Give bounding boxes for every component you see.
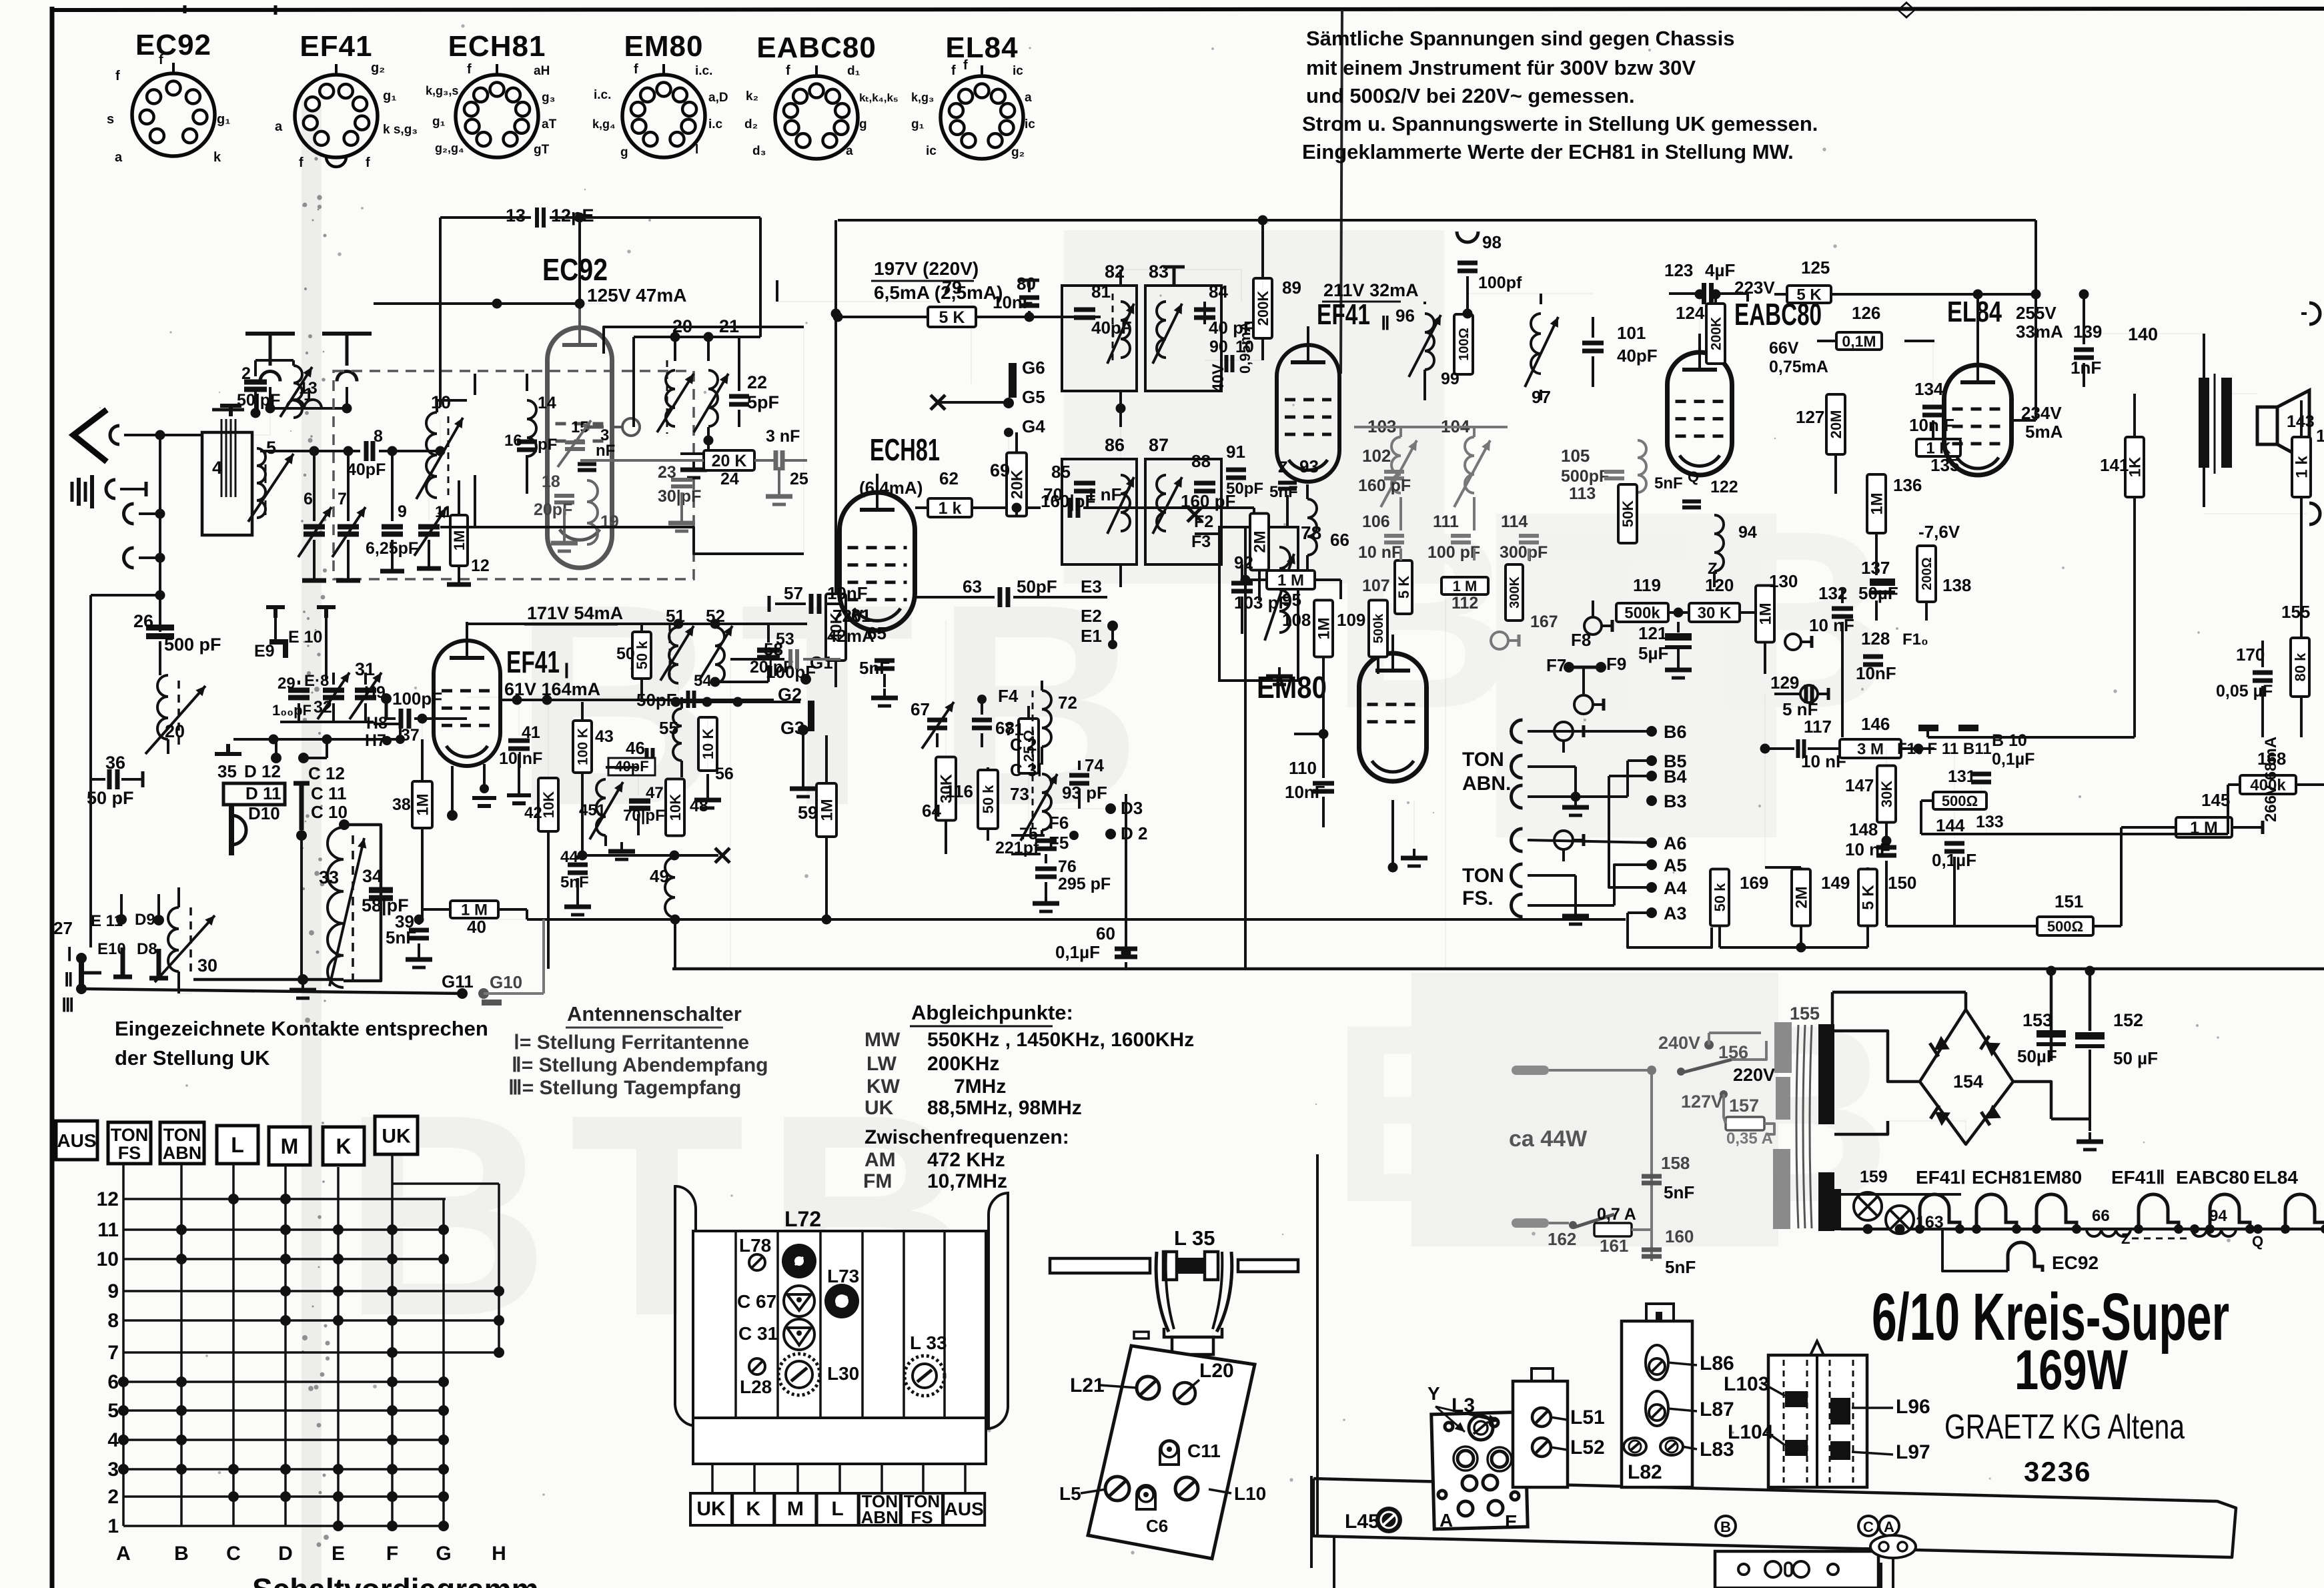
junction: [1677, 1068, 1685, 1076]
wire: [1322, 734, 1325, 778]
wire: [1831, 992, 1834, 1024]
resistor 12 (1M): [450, 515, 468, 566]
svg-text:10,7MHz: 10,7MHz: [927, 1170, 1007, 1192]
svg-text:148: 148: [1849, 819, 1878, 839]
svg-text:L10: L10: [1234, 1483, 1266, 1504]
wire: [332, 673, 335, 685]
tuner yoke right leg2: [1213, 1252, 1222, 1329]
svg-text:G11: G11: [442, 971, 474, 991]
wire mains 1: [1549, 1069, 1652, 1072]
wire: [89, 779, 92, 947]
svg-text:10: 10: [431, 392, 451, 412]
svg-text:Q: Q: [2252, 1233, 2263, 1250]
capacitor 60 (0,1µF): [1115, 949, 1137, 957]
svg-text:a: a: [1025, 91, 1032, 105]
wire: [1892, 1558, 1894, 1588]
capacitor 110 (10nF): [1313, 783, 1334, 791]
leader L104: [1766, 1432, 1785, 1445]
wire: [385, 699, 388, 719]
border frame top: [52, 9, 2324, 10]
IF transformer can 83: [1145, 286, 1221, 391]
wire: [300, 835, 303, 978]
capacitor 44 (5nF): [568, 865, 588, 873]
wire: [637, 814, 640, 835]
wire: [466, 622, 468, 624]
svg-text:78: 78: [1301, 522, 1321, 543]
tuner flange right: [1205, 1252, 1218, 1280]
trimmer C31: [784, 1319, 814, 1350]
wire: [706, 774, 709, 791]
svg-text:AM: AM: [864, 1149, 896, 1171]
matrix contact A3: [118, 1464, 129, 1475]
wire EM80 feed vertical: [1244, 527, 1247, 969]
svg-text:10K: 10K: [667, 794, 684, 821]
wire: [1119, 391, 1122, 427]
coil 30b: [168, 907, 179, 971]
wire: [2232, 826, 2263, 829]
svg-text:E: E: [1505, 1511, 1518, 1532]
wire: [680, 697, 683, 709]
dashed line 20: [666, 360, 668, 434]
wire: [680, 761, 683, 777]
junction: [298, 974, 308, 985]
resistor 146 (3M): [1840, 739, 1901, 759]
wire: [1861, 1193, 1961, 1196]
resistor 147 (30K): [1877, 766, 1896, 823]
svg-text:99: 99: [1441, 370, 1460, 388]
wire: [1015, 432, 1018, 454]
wire: [1976, 294, 1979, 346]
svg-text:B: B: [174, 1543, 189, 1565]
matrix contact B10: [176, 1254, 187, 1264]
wire: [1258, 571, 1261, 601]
wire: [674, 337, 676, 361]
dashed 30: [189, 907, 192, 974]
screw L21: [1137, 1376, 1159, 1399]
svg-text:FS.: FS.: [1462, 887, 1494, 909]
connector hole: [1738, 1564, 1749, 1575]
svg-text:0,7 A: 0,7 A: [1597, 1205, 1636, 1224]
arrow 67: [922, 702, 954, 749]
wire: [1473, 548, 1476, 560]
wire: [260, 450, 360, 452]
core lamination: [230, 419, 232, 497]
wire: [1027, 706, 1030, 719]
capacitor 63 (50pF): [1000, 587, 1008, 607]
heater of EF41 II: [2139, 1194, 2179, 1229]
capacitor 106 (10nF): [1384, 536, 1404, 542]
wire: [1528, 765, 1576, 768]
wire: [177, 971, 180, 994]
value 40pF box: [608, 758, 655, 775]
terminal bar G10: [482, 1000, 502, 1006]
matrix contact B4: [176, 1435, 187, 1445]
trimmer C67: [784, 1286, 814, 1316]
matrix contact F2: [387, 1491, 398, 1502]
svg-text:146: 146: [1861, 714, 1890, 734]
dashed line 33: [352, 835, 354, 986]
svg-text:Ⅲ= Stellung Tagempfang: Ⅲ= Stellung Tagempfang: [508, 1077, 741, 1099]
contact bar E10: [113, 947, 132, 977]
svg-text:A: A: [1884, 1519, 1894, 1535]
wire: [1377, 599, 1379, 601]
wire: [576, 855, 579, 859]
svg-text:472 KHz: 472 KHz: [927, 1149, 1005, 1171]
svg-text:10nF: 10nF: [827, 583, 868, 603]
svg-text:Ⅰ= Stellung Ferritantenne: Ⅰ= Stellung Ferritantenne: [514, 1032, 749, 1054]
matrix contact G5: [438, 1405, 449, 1416]
wire: [1528, 730, 1652, 733]
svg-text:2M: 2M: [1251, 530, 1269, 552]
wire: [1339, 580, 1342, 599]
arrow 51: [660, 626, 694, 681]
leader L103: [1761, 1382, 1785, 1396]
junction: [76, 983, 87, 994]
wire: [1699, 294, 1700, 334]
svg-text:50: 50: [616, 645, 635, 663]
trimmer 31: [355, 691, 376, 698]
wire: [803, 327, 804, 554]
wire: [1609, 776, 1652, 887]
arrow 52: [699, 626, 732, 681]
junction: [436, 446, 446, 456]
junction: [704, 436, 714, 446]
svg-text:F4: F4: [998, 686, 1019, 706]
svg-text:D 12: D 12: [244, 761, 281, 781]
junction: [296, 830, 307, 841]
arrow 97: [1525, 317, 1558, 387]
svg-text:TON: TON: [163, 1125, 201, 1145]
heater of ECH81: [1976, 1194, 2016, 1229]
svg-text:26: 26: [133, 611, 153, 631]
svg-text:0,1µF: 0,1µF: [1992, 750, 2035, 769]
wire: [159, 641, 161, 675]
tube socket ECH81: [426, 62, 557, 157]
capacitor 77 (103pF): [1231, 583, 1253, 591]
matrix contact H7: [494, 1347, 504, 1358]
svg-text:g₂: g₂: [1011, 145, 1025, 159]
svg-text:L 35: L 35: [1174, 1226, 1215, 1250]
capacitor 139 (1nF): [2074, 350, 2094, 358]
wire: [1677, 622, 1680, 633]
matrix contact E9: [333, 1286, 344, 1296]
bridge diode: [1981, 1104, 2001, 1125]
wire: [1888, 1121, 1966, 1144]
fuse 157: [1726, 1117, 1764, 1130]
svg-text:EABC80: EABC80: [2176, 1167, 2249, 1188]
svg-text:1M: 1M: [1757, 603, 1775, 625]
svg-text:EM80: EM80: [624, 30, 704, 63]
svg-text:112: 112: [1451, 594, 1478, 613]
svg-text:i.c: i.c: [708, 117, 723, 131]
wire: [1628, 913, 1712, 947]
wire: [775, 603, 806, 605]
grid stub G6G5: [1009, 363, 1017, 398]
svg-text:FM: FM: [863, 1170, 892, 1192]
svg-text:g₁: g₁: [432, 115, 446, 129]
svg-text:ABN: ABN: [163, 1143, 202, 1163]
tuner yoke left leg: [1156, 1252, 1169, 1332]
svg-text:EM80: EM80: [2033, 1167, 2082, 1188]
svg-text:110: 110: [1289, 758, 1317, 778]
svg-text:F9: F9: [1606, 654, 1626, 674]
capacitor 15: [565, 442, 585, 449]
core lamination: [225, 419, 227, 497]
svg-text:0,1M: 0,1M: [1842, 332, 1876, 350]
capacitor 37 (100pF): [401, 709, 409, 729]
input hook b: [124, 548, 134, 568]
wire: [2121, 826, 2176, 829]
capacitor 117 (10nF): [1798, 739, 1804, 758]
trimmer 67: [927, 720, 947, 728]
wire ground tick: [145, 482, 148, 496]
svg-text:29: 29: [277, 675, 296, 693]
svg-text:Ⅲ: Ⅲ: [61, 995, 74, 1016]
resistor 168b (80k): [2291, 638, 2309, 697]
svg-text:66: 66: [1330, 530, 1349, 550]
svg-text:240V: 240V: [1658, 1033, 1700, 1053]
coil 19: [587, 480, 598, 544]
wire: [1609, 775, 1652, 777]
svg-text:96: 96: [1395, 306, 1415, 326]
wire EC92 heater loop: [1942, 1229, 2008, 1271]
wire: [987, 829, 989, 841]
coil 20: [666, 370, 675, 426]
svg-text:11: 11: [97, 1219, 119, 1241]
resistor 99 (100Ω): [1454, 314, 1473, 374]
junction: [344, 446, 354, 456]
connector hole: [1828, 1564, 1838, 1575]
svg-text:500k: 500k: [1371, 613, 1386, 643]
svg-text:70|pF: 70|pF: [623, 807, 665, 825]
wire: [422, 908, 450, 911]
junction: [1025, 312, 1035, 322]
can L51 notch: [1532, 1368, 1553, 1381]
capacitor osc 3nF: [578, 464, 596, 470]
terminal A5: [1646, 859, 1657, 870]
capacitor 46: [647, 748, 653, 765]
wire: [580, 303, 604, 304]
wire: [2300, 497, 2303, 737]
wire: [1904, 340, 1934, 342]
resistor 141 (1K): [2125, 437, 2145, 497]
wire: [1111, 626, 1114, 645]
junction: [1704, 1040, 1714, 1050]
capacitor 23 (30pF): [671, 480, 692, 486]
svg-text:5: 5: [107, 1400, 119, 1422]
wire: [682, 459, 704, 462]
knurled core L73: [824, 1284, 859, 1318]
svg-text:L78: L78: [739, 1235, 771, 1256]
svg-text:g₁: g₁: [911, 117, 925, 131]
coil 10: [426, 412, 437, 498]
junction: [1108, 640, 1117, 649]
svg-text:50 k: 50 k: [1712, 883, 1728, 912]
wire: [707, 427, 710, 454]
svg-text:g: g: [859, 117, 867, 131]
can L103: [1768, 1355, 1867, 1487]
matrix contact A4: [118, 1435, 129, 1445]
screw L45: [1375, 1507, 1402, 1533]
svg-text:4µF: 4µF: [1705, 260, 1735, 280]
svg-text:5 K: 5 K: [1395, 576, 1412, 599]
svg-text:10 nF: 10 nF: [1845, 839, 1890, 859]
can dashed strip: [1829, 1360, 1831, 1483]
svg-text:66V: 66V: [1769, 339, 1799, 358]
bridge diode: [1980, 1036, 2000, 1056]
core lamination: [221, 419, 223, 497]
arrow 451: [590, 782, 623, 839]
wire: [326, 739, 328, 758]
contact T E10: [266, 607, 285, 618]
svg-text:0,75mA: 0,75mA: [1769, 358, 1828, 376]
wire: [421, 828, 424, 919]
svg-text:UK: UK: [382, 1125, 411, 1147]
capacitor 133: [1971, 774, 1991, 782]
svg-text:EABC80: EABC80: [756, 31, 877, 64]
wire: [451, 766, 454, 815]
wire: [474, 374, 476, 395]
wire: [634, 336, 760, 338]
svg-text:ca 44W: ca 44W: [1509, 1126, 1588, 1152]
wire: [1724, 1094, 1726, 1124]
jack TON 1: [1554, 722, 1584, 741]
svg-text:550KHz , 1450KHz, 1600KHz: 550KHz , 1450KHz, 1600KHz: [927, 1029, 1194, 1051]
wire G2 line: [672, 701, 800, 703]
wire: [275, 739, 277, 758]
svg-text:a: a: [846, 144, 853, 158]
speaker 143: [2257, 390, 2309, 462]
coil 49: [665, 857, 675, 917]
heater winding bar: [1826, 1189, 1841, 1230]
resistor 89 (200K): [1253, 278, 1272, 338]
wire: [2261, 821, 2265, 834]
svg-text:50 µF: 50 µF: [2113, 1048, 2158, 1068]
wire B+ drop: [834, 220, 837, 594]
wire: [2296, 783, 2324, 786]
switch button L: [217, 1126, 258, 1164]
svg-text:g₁: g₁: [217, 112, 231, 127]
wire: [778, 467, 780, 487]
svg-text:i.c.: i.c.: [594, 88, 611, 102]
wire: [1120, 427, 1121, 459]
capacitor 152 (50µF): [2075, 1032, 2105, 1046]
trimmer arrow 15: [558, 420, 591, 467]
coil pack stub: [881, 1464, 883, 1493]
junction: [155, 509, 165, 519]
coil 103: [1391, 437, 1401, 493]
ground hook: [106, 480, 115, 498]
can L86 notch: [1646, 1304, 1674, 1321]
wire: [2203, 468, 2205, 507]
wire: [2089, 969, 2091, 972]
wire: [1083, 506, 1254, 509]
junction: [822, 915, 832, 925]
svg-text:84: 84: [1209, 282, 1228, 302]
svg-text:136: 136: [1893, 475, 1922, 495]
wire: [1628, 759, 1652, 762]
transformer core line: [1810, 1025, 1812, 1228]
screw L5: [1105, 1477, 1129, 1501]
svg-text:85: 85: [1051, 462, 1071, 482]
wire: [1920, 801, 1922, 834]
wire: [2035, 400, 2037, 420]
wire: [987, 767, 989, 770]
wire: [1885, 822, 1888, 841]
wire: [437, 399, 467, 402]
junction: [2321, 1224, 2324, 1234]
svg-text:3 M: 3 M: [1857, 741, 1884, 759]
junction: [414, 915, 424, 925]
wire: [1886, 925, 2037, 927]
matrix contact G1: [438, 1521, 449, 1531]
wire: [304, 757, 327, 759]
plate hole: [1488, 1447, 1512, 1471]
svg-text:158: 158: [1661, 1153, 1690, 1173]
slug L96: [1830, 1398, 1850, 1425]
svg-text:G6: G6: [1022, 358, 1045, 378]
wire: [2299, 697, 2301, 737]
wire: [1765, 1041, 1768, 1049]
knurled core L33: [905, 1356, 945, 1396]
ground mark 4: [220, 406, 241, 416]
wire: [347, 540, 350, 580]
wire: [313, 540, 316, 580]
wire: [160, 434, 202, 436]
tuner shaft L35 left: [1050, 1258, 1150, 1273]
wire: [1921, 833, 2228, 835]
junction: [382, 736, 392, 745]
dashed section box: [334, 371, 694, 579]
svg-text:12pE: 12pE: [551, 206, 594, 226]
resistor 126 (0,1M): [1836, 332, 1882, 350]
ground 25: [766, 487, 792, 504]
svg-text:L97: L97: [1896, 1441, 1930, 1463]
capacitor 74 (93pF): [1069, 775, 1089, 783]
junction: [1972, 1224, 1981, 1234]
svg-text:AUS: AUS: [57, 1130, 96, 1151]
svg-text:119: 119: [1633, 575, 1661, 595]
svg-text:50µF: 50µF: [1858, 583, 1898, 603]
wire: [1125, 962, 1127, 969]
svg-text:D 11: D 11: [245, 783, 281, 803]
wire: [976, 316, 1029, 318]
arrow 32: [318, 673, 350, 719]
capacitor 84 (40pF): [1194, 310, 1215, 318]
wire: [1540, 294, 1542, 304]
svg-text:30 K: 30 K: [1698, 605, 1732, 623]
underline 211V: [1322, 301, 1401, 303]
wire: [1901, 747, 1934, 750]
coil pack stub: [711, 1464, 714, 1493]
current 266V 68mA: [2262, 737, 2280, 822]
capacitor 158 (5nF): [1642, 1176, 1662, 1183]
junction: [480, 784, 489, 793]
wire: [422, 719, 423, 739]
matrix contact E3: [333, 1464, 344, 1475]
switch button TON FS: [108, 1122, 151, 1164]
wire: [1528, 795, 1628, 798]
dashed 51: [669, 625, 671, 679]
leader L83: [1682, 1447, 1697, 1449]
capacitor 90: [1227, 355, 1233, 372]
wire: [834, 661, 837, 687]
junction: [2031, 290, 2041, 300]
svg-text:40pF: 40pF: [1617, 346, 1658, 366]
svg-text:106: 106: [1362, 512, 1390, 531]
matrix contact F8: [387, 1315, 398, 1326]
svg-text:50pF: 50pF: [1017, 576, 1057, 597]
